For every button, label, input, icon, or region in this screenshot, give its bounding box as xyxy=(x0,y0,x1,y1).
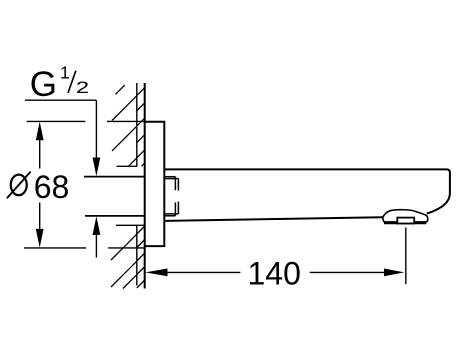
svg-text:G: G xyxy=(30,65,57,104)
svg-text:2: 2 xyxy=(76,78,89,97)
svg-text:1: 1 xyxy=(60,62,70,82)
svg-text:68: 68 xyxy=(34,169,70,205)
svg-text:140: 140 xyxy=(248,255,301,291)
